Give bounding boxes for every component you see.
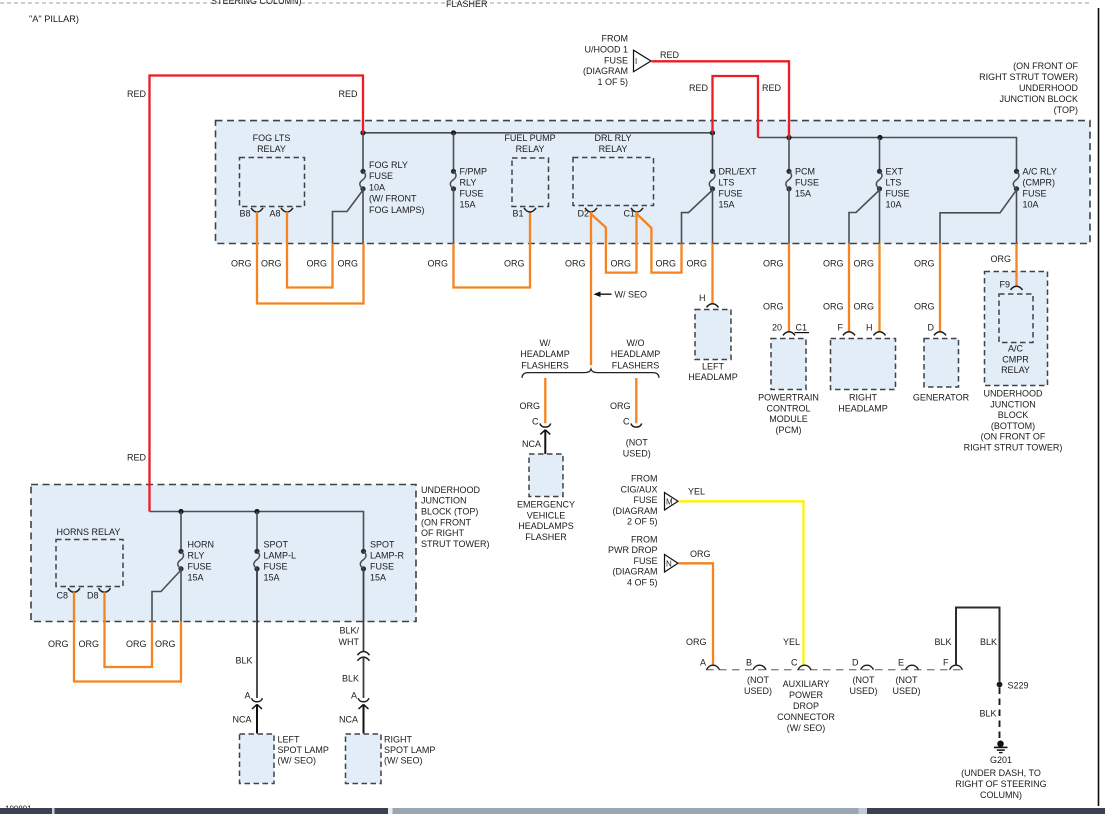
svg-text:C1: C1	[796, 323, 808, 333]
svg-text:USED): USED)	[744, 686, 772, 696]
svg-text:10A: 10A	[1023, 200, 1039, 210]
svg-text:FUSE: FUSE	[460, 188, 484, 198]
wire: BLK from pin F over to splice S229	[956, 608, 1000, 682]
wire: BLK/WHT from SPOT LAMP-R fuse to inline connector	[363, 569, 365, 652]
svg-text:MODULE: MODULE	[769, 414, 808, 424]
svg-text:G201: G201	[990, 755, 1012, 765]
svg-text:LEFT: LEFT	[702, 361, 725, 371]
svg-text:CIG/AUX: CIG/AUX	[620, 484, 657, 494]
svg-text:LEFT: LEFT	[278, 734, 301, 744]
svg-text:15A: 15A	[370, 573, 386, 583]
svg-text:(W/ SEO): (W/ SEO)	[787, 723, 826, 733]
svg-text:UNDERHOOD: UNDERHOOD	[421, 485, 481, 495]
svg-text:LTS: LTS	[719, 178, 735, 188]
relay: HORNS RELAY	[56, 527, 123, 587]
pin C of aux power drop connector	[798, 665, 811, 670]
wire: ORG from D2 down to headlamp-flasher split	[590, 212, 592, 365]
svg-text:BLK: BLK	[979, 709, 996, 719]
wire: ORG to LEFT HEADLAMP pin H	[711, 244, 713, 305]
svg-text:A/C: A/C	[1008, 344, 1024, 354]
svg-text:15A: 15A	[795, 189, 811, 199]
svg-text:RIGHT: RIGHT	[384, 734, 413, 744]
svg-text:SPOT LAMP: SPOT LAMP	[278, 745, 329, 755]
svg-text:D: D	[928, 323, 935, 333]
wire: ORG loop F/PMP fuse to pin B1	[454, 212, 531, 288]
fuse: PCM FUSE 15A	[786, 138, 819, 199]
svg-text:C: C	[532, 417, 539, 427]
fuse: F/PMP RLY FUSE 15A	[450, 133, 487, 210]
svg-text:BLK: BLK	[235, 656, 252, 666]
connector: inline connector on right spot lamp wire	[358, 652, 370, 656]
svg-text:RED: RED	[762, 83, 782, 93]
svg-text:1 OF 5): 1 OF 5)	[597, 77, 628, 87]
svg-text:(W/ SEO): (W/ SEO)	[278, 756, 317, 766]
svg-text:RIGHT OF STEERING: RIGHT OF STEERING	[955, 779, 1046, 789]
wire: bus B (top block right feed rail)	[758, 138, 1017, 170]
wire: ORG loop angled leg to pin A8	[287, 212, 333, 288]
svg-text:F: F	[838, 323, 844, 333]
underhood junction block (top) outline U2 (horns section)	[31, 485, 416, 622]
wire: EXT fuse angled branch (gray) to pin F riser	[849, 190, 880, 244]
svg-text:GENERATOR: GENERATOR	[913, 393, 970, 403]
svg-text:FUSE: FUSE	[719, 189, 743, 199]
pin D of aux power drop connector	[861, 665, 874, 670]
wire: ORG branch to emergency flasher (W/ HEADLAMP FLASHERS)	[544, 378, 546, 423]
svg-text:HEADLAMP: HEADLAMP	[838, 403, 888, 413]
wire: FOG fuse output straight leg (gray inside block)	[362, 189, 364, 244]
svg-text:ORG: ORG	[990, 254, 1011, 264]
svg-text:FUSE: FUSE	[1023, 189, 1047, 199]
fuse: HORN RLY FUSE 15A	[178, 512, 214, 583]
svg-text:(DIAGRAM: (DIAGRAM	[613, 567, 658, 577]
svg-text:FLASHERS: FLASHERS	[612, 360, 660, 370]
pin E of aux power drop connector	[906, 665, 919, 670]
svg-text:B8: B8	[239, 209, 250, 219]
wire: RED from triangle I to bus B	[652, 61, 790, 137]
svg-text:FUSE: FUSE	[369, 171, 393, 181]
svg-text:WHT: WHT	[339, 637, 360, 647]
component: POWERTRAIN CONTROL MODULE (PCM)	[758, 332, 819, 435]
svg-text:10A: 10A	[886, 200, 902, 210]
svg-text:FUEL PUMP: FUEL PUMP	[504, 133, 555, 143]
svg-text:CONTROL: CONTROL	[766, 403, 810, 413]
svg-text:D: D	[852, 658, 859, 668]
svg-text:ORG: ORG	[504, 259, 525, 269]
svg-text:NCA: NCA	[339, 715, 358, 725]
svg-text:HORN: HORN	[188, 540, 215, 550]
svg-text:U/HOOD 1: U/HOOD 1	[584, 44, 628, 54]
svg-text:UNDERHOOD: UNDERHOOD	[983, 389, 1043, 399]
wire: A/C fuse angled branch (gray) to generator riser	[940, 190, 1017, 244]
svg-text:4 OF 5): 4 OF 5)	[627, 577, 658, 587]
svg-text:PCM: PCM	[795, 167, 815, 177]
svg-text:B: B	[746, 658, 752, 668]
pin A8 of FOG LTS relay	[281, 208, 293, 212]
svg-text:POWERTRAIN: POWERTRAIN	[758, 393, 819, 403]
svg-text:RED: RED	[660, 50, 680, 60]
wire: BLK from inline connector to connector A	[363, 657, 365, 698]
svg-text:RELAY: RELAY	[516, 144, 545, 154]
wire: PCM fuse output (gray)	[788, 189, 790, 244]
svg-text:LAMP-R: LAMP-R	[370, 551, 405, 561]
svg-text:FROM: FROM	[631, 535, 658, 545]
svg-text:DRL RLY: DRL RLY	[594, 133, 631, 143]
svg-text:15A: 15A	[188, 573, 204, 583]
fuse: EXT LTS FUSE 10A	[876, 138, 909, 210]
svg-text:(CMPR): (CMPR)	[1023, 178, 1056, 188]
svg-text:(UNDER DASH, TO: (UNDER DASH, TO	[961, 768, 1041, 778]
svg-text:ORG: ORG	[686, 637, 707, 647]
svg-text:STRUT TOWER): STRUT TOWER)	[421, 539, 490, 549]
svg-text:15A: 15A	[264, 573, 280, 583]
svg-text:S229: S229	[1008, 681, 1029, 691]
svg-text:RED: RED	[689, 83, 709, 93]
svg-text:USED): USED)	[623, 448, 651, 458]
page right border	[1098, 8, 1100, 806]
svg-text:AUXILIARY: AUXILIARY	[783, 679, 830, 689]
svg-text:FROM: FROM	[631, 474, 658, 484]
svg-text:W/ SEO: W/ SEO	[615, 290, 648, 300]
svg-text:VEHICLE: VEHICLE	[527, 510, 566, 520]
svg-text:RELAY: RELAY	[257, 144, 286, 154]
component: RIGHT SPOT LAMP (W/ SEO)	[346, 734, 436, 784]
svg-text:(NOT: (NOT	[626, 438, 648, 448]
svg-text:FROM: FROM	[602, 34, 629, 44]
svg-text:RED: RED	[127, 89, 147, 99]
svg-text:ORG: ORG	[914, 302, 935, 312]
component: RIGHT HEADLAMP	[831, 339, 896, 414]
wire: DRL/EXT fuse straight output to LEFT HEADLAMP (gray)	[712, 189, 714, 244]
svg-text:ORG: ORG	[914, 259, 935, 269]
pin D8 of HORNS relay	[99, 588, 111, 592]
wire: BLK dashed to ground G201	[999, 688, 1001, 740]
svg-text:ORG: ORG	[610, 401, 631, 411]
svg-text:FLASHERS: FLASHERS	[521, 360, 569, 370]
pin C1 of DRL RLY relay	[631, 208, 643, 212]
svg-text:(NOT: (NOT	[853, 675, 875, 685]
wire: RED feed from top-left to bus A and lower block	[150, 76, 364, 512]
svg-text:(TOP): (TOP)	[1054, 105, 1078, 115]
node: junction dots on bus B	[786, 135, 791, 140]
svg-text:ORG: ORG	[823, 302, 844, 312]
svg-text:ORG: ORG	[78, 639, 99, 649]
svg-text:C: C	[623, 417, 630, 427]
svg-text:A: A	[244, 691, 250, 701]
svg-text:STEERING COLUMN): STEERING COLUMN)	[211, 0, 302, 6]
wire: gray riser from ORG loop to DRL/EXT fuse angled branch	[682, 190, 713, 244]
svg-text:ORG: ORG	[763, 302, 784, 312]
svg-text:(ON FRONT: (ON FRONT	[421, 517, 471, 527]
pin B1 of FUEL PUMP relay	[524, 208, 536, 212]
svg-text:HEADLAMP: HEADLAMP	[688, 372, 738, 382]
svg-text:N: N	[666, 559, 672, 568]
svg-text:W/O: W/O	[627, 338, 645, 348]
pin C8 of HORNS relay	[68, 588, 80, 592]
wire: bus A (top block upper feed rail)	[363, 132, 713, 134]
wire: ORG to A/C CMPR relay pin F9	[1015, 244, 1017, 287]
svg-text:"A" PILLAR): "A" PILLAR)	[29, 14, 79, 24]
svg-text:POWER: POWER	[789, 690, 824, 700]
svg-text:FOG LTS: FOG LTS	[253, 133, 291, 143]
svg-text:FOG RLY: FOG RLY	[369, 160, 408, 170]
svg-text:D2: D2	[577, 209, 589, 219]
svg-text:RLY: RLY	[460, 177, 477, 187]
svg-text:20: 20	[772, 323, 782, 333]
svg-text:F: F	[943, 658, 949, 668]
block: UNDERHOOD JUNCTION BLOCK (BOTTOM)	[985, 272, 1048, 386]
component: GENERATOR	[913, 339, 970, 403]
svg-text:E: E	[898, 658, 904, 668]
svg-text:HEADLAMP: HEADLAMP	[520, 349, 570, 359]
svg-text:BLK: BLK	[980, 637, 997, 647]
svg-text:FUSE: FUSE	[886, 189, 910, 199]
svg-text:YEL: YEL	[783, 637, 800, 647]
wire: ORG to PCM pin C1	[788, 244, 790, 333]
svg-text:LAMP-L: LAMP-L	[264, 551, 297, 561]
svg-text:(ON FRONT OF: (ON FRONT OF	[1013, 61, 1078, 71]
svg-text:FLASHER: FLASHER	[525, 532, 567, 542]
svg-text:ORG: ORG	[610, 259, 631, 269]
relay: FOG LTS RELAY	[240, 133, 305, 207]
connector: AUXILIARY POWER DROP CONNECTOR line	[706, 669, 963, 671]
wire: NCA lead into RIGHT SPOT LAMP	[359, 704, 369, 709]
wire: ORG loop C1 diagonal toward DRL/EXT fuse	[637, 214, 682, 273]
svg-text:RIGHT STRUT TOWER): RIGHT STRUT TOWER)	[964, 443, 1063, 453]
svg-text:ORG: ORG	[427, 259, 448, 269]
svg-text:CONNECTOR: CONNECTOR	[777, 712, 835, 722]
underhood junction block (top) outline U1	[216, 121, 1091, 244]
connector triangle M: FROM CIG/AUX FUSE	[665, 493, 679, 511]
svg-text:A/C RLY: A/C RLY	[1023, 167, 1057, 177]
svg-text:RED: RED	[338, 89, 358, 99]
svg-text:ORG: ORG	[853, 259, 874, 269]
wire: ORG to RIGHT HEADLAMP pin H	[878, 244, 880, 333]
svg-text:FUSE: FUSE	[633, 495, 657, 505]
svg-text:I: I	[635, 57, 637, 66]
svg-text:DRL/EXT: DRL/EXT	[719, 167, 758, 177]
svg-text:ORG: ORG	[565, 259, 586, 269]
svg-text:FUSE: FUSE	[264, 562, 288, 572]
svg-text:C8: C8	[56, 591, 68, 601]
component: EMERGENCY VEHICLE HEADLAMPS FLASHER	[517, 454, 575, 542]
svg-text:ORG: ORG	[155, 639, 176, 649]
fuse: SPOT LAMP-R FUSE 15A	[360, 540, 404, 583]
svg-text:HEADLAMP: HEADLAMP	[611, 349, 661, 359]
svg-text:(W/ FRONT: (W/ FRONT	[369, 194, 417, 204]
svg-text:JUNCTION BLOCK: JUNCTION BLOCK	[999, 94, 1078, 104]
svg-text:C: C	[791, 658, 798, 668]
svg-text:UNDERHOOD: UNDERHOOD	[1019, 83, 1079, 93]
relay: A/C CMPR RELAY	[999, 294, 1033, 375]
svg-text:ORG: ORG	[686, 259, 707, 269]
label: W/ SEO arrow pointing at D2 wire	[595, 293, 612, 295]
wire: FOG fuse output angled branch to x332.5	[333, 190, 364, 244]
svg-text:HEADLAMPS: HEADLAMPS	[518, 521, 574, 531]
wire: NCA lead into LEFT SPOT LAMP	[252, 704, 262, 709]
svg-text:ORG: ORG	[823, 259, 844, 269]
wire: ORG loop horn fuse to pin C8	[74, 592, 181, 681]
svg-text:10A: 10A	[369, 182, 385, 192]
wire: HORN fuse straight output (gray)	[180, 569, 182, 622]
svg-text:2 OF 5): 2 OF 5)	[627, 517, 658, 527]
svg-text:JUNCTION: JUNCTION	[990, 399, 1036, 409]
svg-text:EXT: EXT	[886, 167, 904, 177]
svg-text:H: H	[699, 293, 706, 303]
fuse: A/C RLY (CMPR) FUSE 10A	[1014, 169, 1019, 174]
svg-text:(NOT: (NOT	[896, 675, 918, 685]
svg-text:ORG: ORG	[306, 259, 327, 269]
svg-text:SPOT: SPOT	[370, 540, 395, 550]
svg-text:USED): USED)	[849, 686, 877, 696]
svg-text:(PCM): (PCM)	[776, 425, 802, 435]
node: junction dots on bus C	[178, 509, 183, 514]
svg-text:RIGHT: RIGHT	[849, 393, 878, 403]
wire: RED jumper bus A to bus B	[713, 76, 759, 138]
svg-text:BLOCK: BLOCK	[998, 410, 1029, 420]
wire: EXT fuse straight output (gray) to pin H	[879, 189, 881, 244]
svg-text:RELAY: RELAY	[1001, 365, 1030, 375]
svg-text:FUSE: FUSE	[633, 556, 657, 566]
svg-text:SPOT LAMP: SPOT LAMP	[384, 745, 435, 755]
svg-text:ORG: ORG	[853, 302, 874, 312]
svg-text:ORG: ORG	[763, 259, 784, 269]
svg-text:D8: D8	[87, 591, 99, 601]
fuse: FOG RLY FUSE 10A	[360, 133, 425, 215]
svg-text:OF RIGHT: OF RIGHT	[421, 528, 464, 538]
svg-text:NCA: NCA	[232, 715, 251, 725]
svg-text:ORG: ORG	[126, 639, 147, 649]
svg-text:ORG: ORG	[337, 259, 358, 269]
connector triangle N: FROM PWR DROP FUSE	[665, 555, 679, 573]
svg-text:FUSE: FUSE	[795, 178, 819, 188]
svg-text:FOG LAMPS): FOG LAMPS)	[369, 205, 425, 215]
svg-text:FUSE: FUSE	[604, 55, 628, 65]
wire: top remnant dashed separator	[0, 2, 1091, 4]
svg-text:PWR DROP: PWR DROP	[608, 545, 658, 555]
svg-text:ORG: ORG	[231, 259, 252, 269]
wire: A/C fuse straight output (gray)	[1016, 189, 1018, 244]
wire: ORG to RIGHT HEADLAMP pin F	[848, 244, 850, 333]
wire: BLK from SPOT LAMP-L fuse to connector A	[256, 569, 258, 698]
svg-text:SPOT: SPOT	[264, 540, 289, 550]
node: splice S229	[997, 682, 1003, 688]
svg-text:F9: F9	[999, 280, 1010, 290]
decorative bottom scrollbar	[0, 808, 1105, 814]
svg-text:JUNCTION: JUNCTION	[421, 496, 467, 506]
wire: F/PMP fuse output (gray inside block)	[453, 189, 455, 244]
svg-text:ORG: ORG	[655, 259, 676, 269]
pin B of aux power drop connector	[753, 665, 766, 670]
svg-text:BLK/: BLK/	[339, 625, 359, 635]
svg-text:RELAY: RELAY	[599, 144, 628, 154]
svg-text:USED): USED)	[892, 686, 920, 696]
svg-text:BLK: BLK	[342, 673, 359, 683]
svg-text:COLUMN): COLUMN)	[980, 790, 1022, 800]
svg-text:FUSE: FUSE	[370, 562, 394, 572]
svg-text:(ON FRONT OF: (ON FRONT OF	[981, 432, 1046, 442]
wire: ORG loop fuse leg to pin B8	[257, 212, 364, 304]
connector triangle I: FROM U/HOOD 1 FUSE	[634, 50, 652, 71]
svg-text:FLASHER: FLASHER	[446, 0, 488, 9]
svg-text:W/: W/	[540, 338, 551, 348]
svg-text:YEL: YEL	[688, 487, 705, 497]
wire: ORG loop D2 diagonal to C1	[591, 212, 637, 273]
svg-text:ORG: ORG	[48, 639, 69, 649]
wire: NCA lead with connector arrow into flasher	[540, 430, 550, 435]
relay: FUEL PUMP RELAY	[504, 133, 555, 207]
svg-text:(DIAGRAM: (DIAGRAM	[613, 506, 658, 516]
wire: ORG to GENERATOR pin D	[939, 244, 941, 333]
wire: ORG branch (W/O HEADLAMP FLASHERS)	[635, 378, 637, 423]
svg-text:CMPR: CMPR	[1002, 354, 1029, 364]
svg-text:A8: A8	[269, 209, 280, 219]
pin F of aux power drop connector	[950, 665, 963, 670]
wire: YEL from triangle M to aux connector pin C	[679, 501, 804, 665]
pin B8 of FOG LTS relay	[251, 208, 263, 212]
svg-text:(BOTTOM): (BOTTOM)	[991, 421, 1035, 431]
svg-text:ORG: ORG	[261, 259, 282, 269]
wire: HORN fuse angled branch (gray)	[152, 570, 181, 622]
component: LEFT HEADLAMP	[688, 304, 738, 382]
wire: ORG loop angled leg to pin D8	[105, 592, 153, 667]
svg-text:HORNS RELAY: HORNS RELAY	[57, 527, 121, 537]
svg-text:EMERGENCY: EMERGENCY	[517, 500, 575, 510]
svg-text:(NOT: (NOT	[747, 675, 769, 685]
pin D2 of DRL RLY relay	[585, 208, 597, 212]
svg-text:15A: 15A	[460, 199, 476, 209]
svg-text:ORG: ORG	[519, 401, 540, 411]
svg-text:(DIAGRAM: (DIAGRAM	[583, 66, 628, 76]
svg-text:LTS: LTS	[886, 178, 902, 188]
svg-text:A: A	[700, 658, 706, 668]
svg-text:BLOCK (TOP): BLOCK (TOP)	[421, 507, 478, 517]
svg-text:ORG: ORG	[690, 549, 711, 559]
svg-text:(W/ SEO): (W/ SEO)	[384, 756, 423, 766]
node: headlamp flasher branch brace	[522, 369, 659, 378]
svg-text:DROP: DROP	[793, 701, 819, 711]
svg-text:15A: 15A	[719, 200, 735, 210]
svg-text:RED: RED	[127, 453, 147, 463]
component: LEFT SPOT LAMP (W/ SEO)	[240, 734, 329, 784]
svg-text:RIGHT STRUT TOWER): RIGHT STRUT TOWER)	[979, 72, 1078, 82]
svg-text:FUSE: FUSE	[188, 562, 212, 572]
svg-text:F/PMP: F/PMP	[460, 166, 488, 176]
ground: G201	[990, 741, 1012, 766]
svg-text:H: H	[866, 323, 873, 333]
svg-text:BLK: BLK	[934, 637, 951, 647]
fuse: SPOT LAMP-L FUSE 15A	[254, 512, 296, 583]
fuse: DRL/EXT LTS FUSE 15A	[709, 133, 757, 210]
svg-text:A: A	[351, 691, 357, 701]
node: junction dots on bus A	[360, 130, 365, 135]
wire: bus C (lower block rail)	[150, 512, 364, 550]
svg-text:NCA: NCA	[522, 439, 541, 449]
relay: DRL RLY RELAY	[573, 133, 654, 206]
svg-text:C1: C1	[623, 209, 635, 219]
pin A of aux power drop connector	[707, 665, 720, 670]
svg-text:M: M	[666, 497, 673, 506]
svg-text:RLY: RLY	[188, 551, 205, 561]
svg-text:B1: B1	[512, 209, 523, 219]
wire: ORG from triangle N to aux connector pin A	[679, 563, 714, 665]
